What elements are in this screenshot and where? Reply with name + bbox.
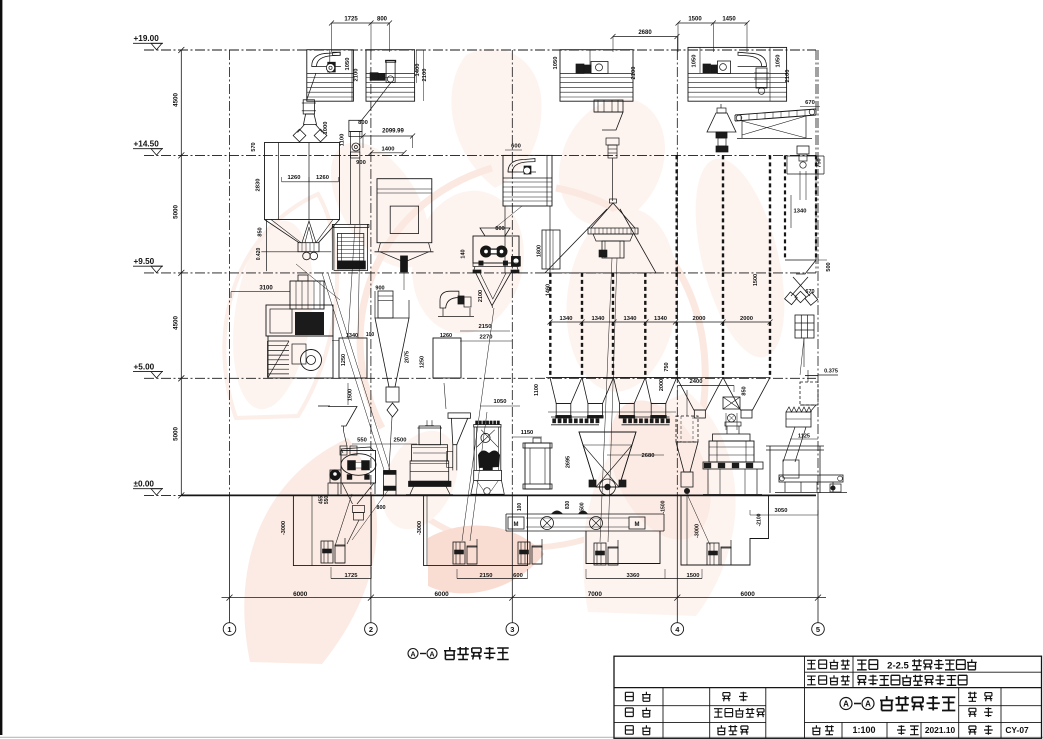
- pellet mill PM1 base: [409, 481, 452, 486]
- belt conveyor BCV: [779, 475, 843, 482]
- P5 fan quarter duct: [508, 159, 535, 172]
- distributor below P3: [594, 100, 623, 112]
- boot B3: [518, 542, 530, 564]
- svg-text:A: A: [843, 700, 849, 709]
- blower on P2: [370, 73, 378, 81]
- svg-text:900: 900: [356, 160, 366, 166]
- PM1 side pipe: [447, 451, 453, 467]
- ground line thick: [181, 494, 816, 496]
- svg-text:600: 600: [513, 573, 523, 579]
- svg-text:2100: 2100: [478, 290, 484, 302]
- svg-text:800: 800: [376, 505, 385, 511]
- svg-text:2000: 2000: [659, 379, 665, 391]
- BE2 wheel: [481, 433, 490, 442]
- underground channel: [506, 513, 664, 515]
- svg-text:1:100: 1:100: [852, 725, 875, 735]
- chute P2 line: [361, 80, 399, 121]
- elevator E1 pulley: [352, 143, 360, 151]
- svg-text:6000: 6000: [293, 591, 308, 598]
- level line +5.00: [144, 377, 816, 379]
- svg-text:2830: 2830: [256, 179, 262, 192]
- svg-text:600: 600: [511, 144, 521, 150]
- svg-text:100: 100: [517, 503, 523, 512]
- svg-text:2021.10: 2021.10: [925, 725, 956, 735]
- bin walls (+9.5 to +5): [549, 273, 551, 378]
- svg-text:2150: 2150: [479, 324, 492, 330]
- vessel below P1: [303, 100, 314, 114]
- svg-text:570: 570: [251, 142, 257, 151]
- label 制图: [625, 708, 633, 717]
- label 图号: [968, 726, 976, 735]
- svg-text:2000: 2000: [740, 316, 753, 322]
- P4 fan: [738, 52, 767, 66]
- channel conveyor drag: [508, 517, 524, 529]
- tank T1 hopper: [380, 252, 404, 262]
- screw conveyor SCV: [579, 432, 636, 487]
- P3 motor: [576, 64, 584, 73]
- level line &#177;0.00: [144, 494, 816, 496]
- tank T1 inner: [390, 206, 418, 233]
- T2 top pipe: [533, 438, 541, 443]
- level line +14.50: [144, 154, 816, 156]
- platform P3: [560, 50, 633, 101]
- bag filter F1 body: [265, 143, 340, 220]
- column bubble 3: [506, 623, 519, 636]
- svg-text:1050: 1050: [776, 55, 782, 68]
- svg-text:2099.99: 2099.99: [382, 129, 404, 135]
- drop cone to pit C: [600, 258, 612, 542]
- bin dim line: [550, 321, 770, 323]
- svg-text:1340: 1340: [592, 316, 605, 322]
- drop line to cone: [612, 158, 614, 201]
- svg-text:M: M: [635, 522, 640, 528]
- svg-text:A: A: [865, 700, 871, 709]
- title block column lines: [662, 688, 664, 739]
- svg-text:750: 750: [817, 158, 823, 167]
- value company: [858, 676, 867, 686]
- crumbler CR1 feed hopper: [480, 228, 510, 236]
- svg-text:1050: 1050: [494, 399, 507, 405]
- top dim 1500/1450: [678, 22, 747, 24]
- drawing title A-A: [408, 649, 418, 659]
- cyclone CY1 cone: [375, 318, 409, 387]
- column bubble 1: [223, 623, 236, 636]
- P1 fan quarter duct: [312, 52, 341, 66]
- svg-text:100: 100: [366, 332, 375, 338]
- P4 small vessel: [756, 68, 767, 88]
- left dimension line: [180, 50, 182, 495]
- funnel FL2 tray: [448, 413, 470, 418]
- level line +19.00: [144, 49, 816, 51]
- drop CY2: [687, 494, 710, 545]
- svg-text:5: 5: [816, 625, 820, 634]
- svg-text:2-2.5: 2-2.5: [887, 660, 909, 671]
- svg-text:2680: 2680: [638, 30, 652, 36]
- pellet mill PM1 mid flare: [412, 445, 448, 461]
- grinder lower: [268, 336, 333, 378]
- P5 legs: [504, 206, 506, 273]
- sifter SF2 top frame: [713, 434, 751, 441]
- pellet mill PM1 top cap: [425, 425, 434, 427]
- watermark logo: [222, 49, 801, 664]
- screener S1 screen box: [337, 234, 363, 261]
- title block frame: [614, 656, 1042, 738]
- drop box: [384, 471, 397, 496]
- inclined conveyor CV1: [735, 109, 816, 115]
- value project name: [857, 660, 867, 670]
- filter legs: [265, 220, 267, 272]
- BE2 frame: [473, 427, 475, 470]
- cooler cone BC dome: [610, 199, 617, 203]
- svg-text:2100: 2100: [422, 69, 428, 82]
- svg-text:2: 2: [369, 625, 373, 634]
- svg-text:A: A: [410, 652, 415, 659]
- svg-text:1400: 1400: [415, 64, 421, 77]
- label 校对: [625, 726, 633, 735]
- sifter SF2 body: [709, 441, 754, 462]
- svg-text:1250: 1250: [341, 354, 347, 366]
- platform P5 (right, below +14.5): [503, 155, 552, 206]
- pit P-C deep: [586, 531, 660, 564]
- svg-text:CY-07: CY-07: [1005, 725, 1029, 735]
- svg-text:850: 850: [742, 386, 748, 395]
- svg-text:1500: 1500: [687, 573, 700, 579]
- small circle below X box: [728, 414, 736, 422]
- chute P1 to vessel: [307, 73, 316, 99]
- filter outlet box: [298, 243, 319, 252]
- crumbler legs: [473, 267, 475, 273]
- tank T1 discharge dark: [401, 256, 408, 272]
- scale hopper SH: [786, 407, 812, 412]
- svg-text:1500: 1500: [753, 274, 759, 286]
- label 设计: [625, 692, 633, 701]
- svg-text:800: 800: [358, 120, 368, 126]
- pit P-D: [681, 495, 769, 565]
- slide gate bars: [551, 416, 599, 418]
- svg-text:+19.00: +19.00: [134, 34, 160, 43]
- svg-text:7000: 7000: [588, 591, 603, 598]
- svg-text:670: 670: [805, 100, 815, 106]
- Y chute right: [793, 277, 810, 296]
- svg-text:1340: 1340: [560, 316, 573, 322]
- svg-text:3: 3: [510, 625, 514, 634]
- drop line P5 to crumbler: [495, 206, 522, 228]
- svg-text:-3000: -3000: [417, 521, 423, 535]
- svg-text:1725: 1725: [345, 573, 359, 579]
- mixer discharge to pit: [342, 483, 353, 504]
- platform P1 with fan: [307, 50, 354, 101]
- svg-text:800: 800: [495, 226, 504, 232]
- svg-text:0.420: 0.420: [256, 248, 262, 261]
- Y splitter: [304, 114, 317, 124]
- svg-text:2075: 2075: [405, 351, 411, 363]
- P1 fan motor: [328, 62, 336, 72]
- svg-text:A: A: [429, 652, 434, 659]
- boot B1: [321, 541, 333, 563]
- mixer motor: [330, 470, 341, 483]
- svg-text:500: 500: [826, 262, 832, 271]
- wide bin hoppers: [677, 378, 723, 411]
- svg-text:+14.50: +14.50: [134, 140, 160, 149]
- pellet mill PM1 conditioner: [419, 426, 441, 445]
- column line 1: [229, 50, 231, 495]
- grinder feeder box: [290, 281, 324, 309]
- svg-text:1260: 1260: [288, 175, 301, 181]
- cyclone CY2 dashed bin: [676, 416, 698, 442]
- column bubble 4: [671, 623, 684, 636]
- svg-text:2100: 2100: [785, 70, 791, 83]
- rotary screener S1 frame: [332, 224, 369, 227]
- hopper H2: [433, 338, 461, 378]
- title block row lines: [805, 671, 1042, 673]
- box right of crumbler: [542, 230, 560, 269]
- label 图别: [968, 708, 976, 717]
- label 设计单位: [807, 676, 816, 685]
- bag filter hopper twin V: [265, 220, 300, 243]
- level line +9.50: [144, 272, 816, 274]
- svg-text:1340: 1340: [654, 316, 667, 322]
- PF chute: [783, 427, 795, 462]
- svg-text:+5.00: +5.00: [134, 363, 155, 372]
- drop line mixer-pit: [335, 494, 352, 546]
- svg-text:1100: 1100: [340, 134, 346, 147]
- cyclone CY1 top: [378, 291, 393, 318]
- pit P-A walls: [293, 495, 371, 565]
- svg-text:1100: 1100: [534, 384, 540, 396]
- surge bin SB dashed: [800, 382, 818, 405]
- svg-text:2150: 2150: [480, 573, 493, 579]
- bottom dimension line 6000/6000/7000/6000: [222, 597, 827, 599]
- svg-text:3100: 3100: [259, 286, 273, 292]
- cyclone CY1 valve: [387, 403, 398, 417]
- CY2 outlet: [681, 472, 693, 487]
- svg-text:2680: 2680: [642, 453, 655, 459]
- BC body: [602, 241, 624, 258]
- svg-text:1000: 1000: [323, 122, 329, 135]
- svg-text:1725: 1725: [344, 17, 358, 23]
- CR1 hopper below: [476, 273, 511, 306]
- left page edge bar: [0, 0, 2, 735]
- bin walls (+14.5 to +9.5) right: [676, 155, 678, 273]
- svg-text:-1500: -1500: [661, 500, 667, 513]
- CV1 frame: [741, 121, 743, 138]
- grinder stairs: [268, 340, 290, 342]
- boot B2: [453, 542, 465, 564]
- svg-text:1150: 1150: [521, 430, 534, 436]
- column line 5: [817, 50, 819, 495]
- svg-text:1500: 1500: [580, 502, 586, 513]
- label 审定: [722, 693, 730, 702]
- SCV cross brace: [583, 445, 619, 487]
- funnel FL2 cone: [451, 418, 467, 444]
- svg-text:5000: 5000: [173, 205, 180, 219]
- label 工程负责人: [714, 709, 723, 718]
- elevator E1 trunk: [350, 132, 352, 225]
- big title A-A elevation: [840, 698, 852, 710]
- svg-text:0.375: 0.375: [824, 369, 838, 375]
- svg-text:1340: 1340: [624, 316, 637, 322]
- crumbler CR1 body: [473, 236, 519, 263]
- column bubble 5: [812, 623, 825, 636]
- svg-text:830: 830: [565, 501, 571, 510]
- column line 4: [676, 50, 678, 495]
- SF2 checker beam: [703, 462, 763, 469]
- mixer MX1 body: [341, 451, 376, 484]
- elevator head EH: [787, 155, 824, 157]
- svg-text:1400: 1400: [382, 146, 395, 152]
- column bubble 2: [365, 623, 378, 636]
- svg-text:-3000: -3000: [281, 521, 287, 535]
- column line 3: [511, 50, 513, 495]
- svg-text:800: 800: [377, 17, 388, 23]
- svg-text:-3000: -3000: [695, 524, 701, 538]
- svg-text:1800: 1800: [537, 245, 543, 257]
- right bin dim 1340: [790, 195, 792, 228]
- svg-text:-2100: -2100: [757, 513, 763, 526]
- square tank T1: [377, 179, 432, 243]
- svg-text:750: 750: [664, 362, 670, 371]
- svg-text:550: 550: [324, 496, 330, 505]
- drop line crumbler: [462, 308, 494, 541]
- SF2 legs: [707, 469, 709, 494]
- bucket elevator E1 head: [349, 120, 362, 131]
- svg-text:2695: 2695: [566, 456, 572, 468]
- dim line BC: [552, 230, 554, 270]
- drop line grinder-cyclone: [322, 273, 384, 470]
- svg-text:2100: 2100: [631, 67, 637, 80]
- svg-text:+9.50: +9.50: [134, 257, 155, 266]
- bucket elevator BE2 top knobs: [474, 425, 501, 428]
- right bin hopper: [785, 260, 816, 274]
- cyclone drop pipe: [389, 417, 392, 470]
- label 数量: [968, 692, 977, 702]
- svg-text:M: M: [514, 522, 519, 528]
- CY2 cone: [676, 442, 698, 472]
- svg-text:2000: 2000: [693, 316, 706, 322]
- pit P-B dims: [457, 578, 528, 580]
- cyclone CY1 airlock: [386, 387, 399, 402]
- platform P4: [688, 47, 787, 101]
- svg-text:1050: 1050: [345, 58, 351, 71]
- mixer stand: [328, 483, 338, 495]
- svg-text:140: 140: [461, 249, 467, 258]
- drop line be2: [470, 412, 487, 541]
- tank T2: [525, 443, 550, 489]
- svg-text:1050: 1050: [692, 55, 698, 68]
- screener S1 motor dark: [337, 261, 365, 269]
- svg-text:4500: 4500: [173, 316, 180, 330]
- hopper H1: [339, 338, 367, 378]
- BE2 motor cluster dark: [478, 451, 500, 469]
- drop grid to packer: [800, 338, 804, 375]
- P4 blower: [703, 64, 711, 73]
- grinder main body: [266, 305, 333, 336]
- drop line cy1: [352, 489, 389, 540]
- hopper outlet rail: [548, 411, 676, 413]
- label 标准化: [717, 725, 726, 735]
- packing frame PF: [769, 446, 771, 493]
- label 日期: [897, 725, 906, 735]
- filter airlocks: [303, 252, 311, 260]
- dim 2400: [677, 385, 734, 387]
- svg-text:4500: 4500: [173, 93, 180, 107]
- platform P2 with vertical blower: [366, 50, 415, 101]
- svg-text:6000: 6000: [434, 591, 449, 598]
- dim 2680: [613, 36, 677, 38]
- label 工程名称: [807, 660, 816, 669]
- drop line filter to sifter: [296, 264, 340, 300]
- BC ring2: [593, 234, 633, 241]
- svg-text:1500: 1500: [688, 17, 702, 23]
- box with X: [723, 397, 740, 409]
- right boundary: [815, 50, 817, 273]
- drop elevator to hopper: [348, 225, 355, 338]
- tank T1 skirt: [378, 243, 381, 252]
- pit P-A dim 1725: [331, 578, 371, 580]
- top dim 1725/800: [332, 22, 390, 24]
- bag grid box: [795, 315, 814, 338]
- svg-text:670: 670: [805, 289, 814, 295]
- svg-text:2100: 2100: [354, 69, 360, 82]
- svg-text:3050: 3050: [775, 508, 788, 514]
- pit P-C dims: [586, 578, 702, 580]
- svg-text:900: 900: [375, 286, 384, 292]
- svg-text:1500: 1500: [348, 389, 354, 401]
- svg-text:1450: 1450: [722, 17, 736, 23]
- svg-text:550: 550: [357, 438, 367, 444]
- svg-text:850: 850: [257, 227, 263, 236]
- svg-text:2500: 2500: [394, 438, 407, 444]
- svg-text:1: 1: [227, 625, 231, 634]
- boot B4: [594, 543, 606, 565]
- bottom scan line: [0, 736, 1043, 738]
- chute P2 to elevator: [372, 82, 392, 108]
- boot B5: [707, 543, 719, 565]
- BE2 base: [474, 470, 502, 480]
- BCV motor: [830, 484, 841, 492]
- svg-text:1050: 1050: [553, 57, 559, 70]
- funnel FL2 tube: [452, 445, 454, 471]
- svg-text:5000: 5000: [173, 427, 180, 441]
- svg-text:6000: 6000: [741, 591, 756, 598]
- svg-text:2400: 2400: [690, 379, 703, 385]
- BC legs: [545, 209, 607, 273]
- right small bin: [784, 155, 786, 260]
- dim 1400 at +14.5: [371, 152, 404, 154]
- SCV bottom drive: [600, 479, 616, 495]
- svg-text:1260: 1260: [316, 175, 329, 181]
- mixer MX1 inlets: [340, 446, 347, 455]
- svg-text:2270: 2270: [480, 335, 493, 341]
- drop tube: [606, 138, 619, 145]
- dim 2099.99: [363, 135, 413, 137]
- bin bottoms / hoppers: [546, 377, 680, 379]
- funnel FL1: [318, 405, 330, 407]
- svg-text:±0.00: ±0.00: [134, 480, 155, 489]
- separator cone SP1: [717, 108, 726, 113]
- pit P-B walls: [424, 495, 528, 565]
- svg-text:1250: 1250: [420, 356, 426, 368]
- svg-text:3360: 3360: [627, 573, 640, 579]
- column line 2: [370, 50, 372, 495]
- svg-text:1340: 1340: [794, 209, 807, 215]
- svg-text:1260: 1260: [440, 333, 452, 339]
- fan unit FN2: [440, 291, 459, 308]
- label 比例: [812, 725, 821, 735]
- pellet mill PM1 barrel: [410, 461, 449, 481]
- svg-text:455: 455: [319, 496, 325, 505]
